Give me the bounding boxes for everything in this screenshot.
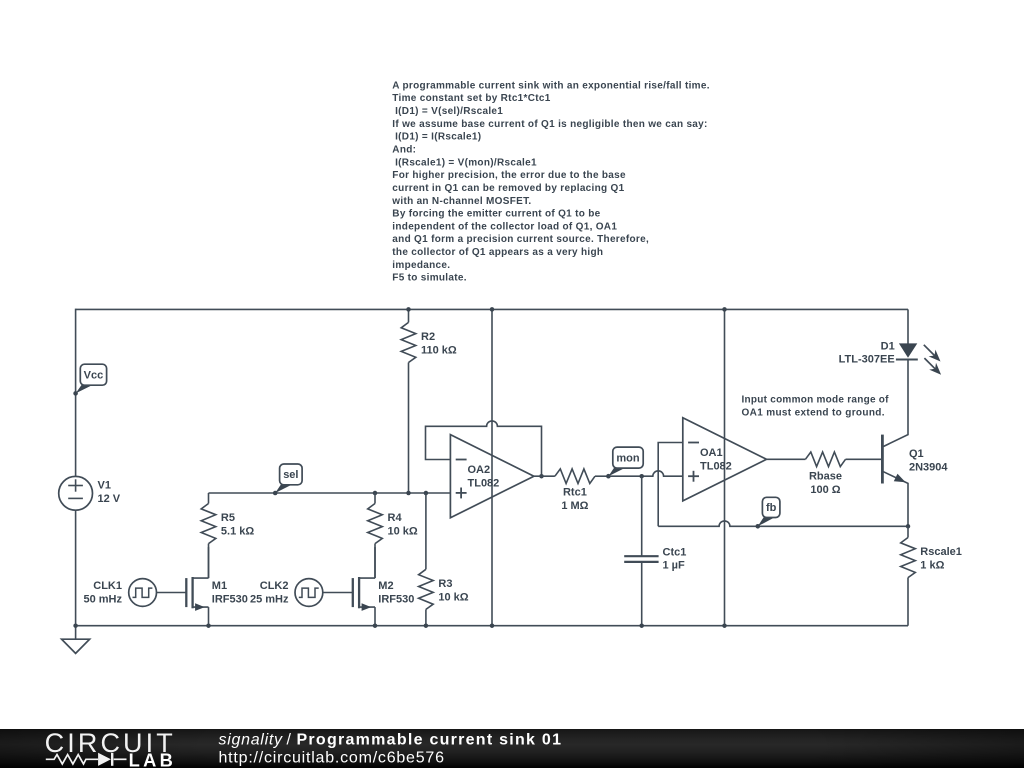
- svg-text:and Q1 form a precision curren: and Q1 form a precision current source. …: [392, 234, 649, 245]
- svg-text:2N3904: 2N3904: [909, 461, 948, 473]
- junction bottom rail / Ctc1: [639, 623, 644, 628]
- svg-text:And:: And:: [392, 145, 416, 156]
- svg-text:R2: R2: [421, 331, 435, 343]
- svg-text:/: /: [287, 732, 292, 749]
- junction top rail / supply col 1: [490, 307, 495, 312]
- svg-text:CLK2: CLK2: [260, 580, 289, 592]
- svg-text:D1: D1: [881, 340, 895, 352]
- logo resistor-diode glyph: [46, 753, 127, 766]
- svg-text:110 kΩ: 110 kΩ: [421, 344, 457, 356]
- svg-text:impedance.: impedance.: [392, 260, 450, 271]
- svg-text:http://circuitlab.com/c6be576: http://circuitlab.com/c6be576: [219, 750, 445, 767]
- wire sel node (to OA2 + input): [209, 492, 451, 494]
- svg-text:F5 to simulate.: F5 to simulate.: [392, 273, 467, 284]
- CircuitLab logo: [0, 725, 1024, 768]
- junction bottom rail / M2 source: [373, 623, 378, 628]
- svg-text:M2: M2: [378, 580, 393, 592]
- svg-text:A programmable current sink wi: A programmable current sink with an expo…: [392, 80, 710, 91]
- svg-text:M1: M1: [212, 580, 227, 592]
- clock source CLK2 25mHz: [250, 579, 323, 607]
- svg-text:LAB: LAB: [129, 749, 173, 768]
- svg-text:TL082: TL082: [468, 478, 500, 490]
- svg-text:I(D1) = V(sel)/Rscale1: I(D1) = V(sel)/Rscale1: [395, 106, 503, 117]
- wire left rail upper (Vcc to V1): [75, 309, 77, 477]
- wire left rail lower (V1 to ground rail): [75, 510, 77, 626]
- svg-text:1 µF: 1 µF: [663, 560, 686, 572]
- svg-text:current in Q1 can be removed b: current in Q1 can be removed by replacin…: [392, 183, 624, 194]
- net flag Vcc: [73, 364, 106, 396]
- ground: [62, 626, 90, 654]
- svg-text:R3: R3: [438, 578, 452, 590]
- resistor Rtc1 1M: [534, 469, 609, 512]
- svg-text:R4: R4: [388, 512, 403, 524]
- svg-text:Input common mode range of: Input common mode range of: [742, 394, 890, 405]
- wire top rail: [76, 308, 908, 310]
- resistor R5 5.1k: [201, 493, 254, 578]
- svg-text:10 kΩ: 10 kΩ: [438, 591, 468, 603]
- svg-text:If we assume base current of Q: If we assume base current of Q1 is negli…: [392, 119, 707, 130]
- junction top rail / supply col 2: [722, 307, 727, 312]
- svg-text:Ctc1: Ctc1: [663, 546, 687, 558]
- LED D1 LTL-307EE: [839, 309, 941, 374]
- resistor Rscale1 1k: [901, 526, 962, 625]
- svg-text:Vcc: Vcc: [84, 370, 104, 382]
- junction bottom rail / R3: [424, 623, 429, 628]
- svg-text:OA1 must extend to ground.: OA1 must extend to ground.: [742, 407, 885, 418]
- svg-text:independent of the collector l: independent of the collector load of Q1,…: [392, 221, 617, 232]
- svg-text:Rscale1: Rscale1: [920, 546, 962, 558]
- junction bottom rail / M1 source: [206, 623, 211, 628]
- footer bar: [0, 729, 1024, 768]
- svg-text:CLK1: CLK1: [93, 580, 122, 592]
- svg-text:25 mHz: 25 mHz: [250, 593, 289, 605]
- net flag fb: [756, 497, 780, 528]
- junction bottom rail / supply col 1: [490, 623, 495, 628]
- svg-text:TL082: TL082: [700, 461, 732, 473]
- junction bottom rail / ground: [73, 623, 78, 628]
- wire mon to OA1 + input, hops fb column: [608, 471, 682, 476]
- resistor R4 10k: [368, 493, 418, 578]
- svg-text:OA2: OA2: [468, 464, 491, 476]
- wire op-amp supply column at x=492: [491, 309, 493, 625]
- resistor R2 110k: [401, 309, 457, 493]
- wire OA1 - input: [658, 443, 683, 527]
- svg-text:signality: signality: [219, 732, 284, 749]
- svg-text:1 MΩ: 1 MΩ: [561, 500, 588, 512]
- svg-text:sel: sel: [283, 469, 298, 481]
- wire fb net (OA1 - to Q1 emitter), hops supply column: [658, 521, 908, 526]
- mosfet M2 IRF530: [353, 547, 415, 626]
- svg-text:R5: R5: [221, 512, 235, 524]
- svg-text:1 kΩ: 1 kΩ: [920, 560, 944, 572]
- svg-text:IRF530: IRF530: [212, 593, 248, 605]
- svg-text:12 V: 12 V: [98, 493, 121, 505]
- junction Ctc1 top: [639, 474, 644, 479]
- net flag mon: [606, 447, 643, 478]
- clock source CLK1 50mHz: [83, 579, 156, 607]
- junction top rail / R2: [406, 307, 411, 312]
- svg-text:V1: V1: [98, 480, 111, 492]
- svg-text:the collector of Q1 appears as: the collector of Q1 appears as a very hi…: [392, 247, 603, 258]
- svg-text:LTL-307EE: LTL-307EE: [839, 354, 895, 366]
- resistor Rbase 100: [767, 452, 882, 496]
- svg-text:50 mHz: 50 mHz: [83, 593, 122, 605]
- capacitor Ctc1 1uF: [624, 476, 686, 626]
- svg-text:Rtc1: Rtc1: [563, 487, 587, 499]
- svg-text:OA1: OA1: [700, 447, 723, 459]
- junction R3 top: [424, 491, 429, 496]
- mosfet M1 IRF530: [186, 547, 248, 626]
- svg-text:fb: fb: [766, 502, 777, 514]
- wire op-amp supply column at x=724.5: [724, 309, 726, 625]
- svg-text:100 Ω: 100 Ω: [810, 484, 840, 496]
- svg-text:By forcing the emitter current: By forcing the emitter current of Q1 to …: [392, 209, 600, 220]
- net flag sel: [273, 464, 302, 495]
- junction Q1 emitter / fb: [906, 524, 911, 529]
- note: circuit description: [391, 80, 710, 283]
- op-amp OA2 TL082: [450, 435, 534, 518]
- svg-text:I(D1) = I(Rscale1): I(D1) = I(Rscale1): [395, 132, 481, 143]
- svg-text:10 kΩ: 10 kΩ: [388, 526, 418, 538]
- svg-text:Time constant set by Rtc1*Ctc1: Time constant set by Rtc1*Ctc1: [392, 93, 550, 104]
- svg-text:with an N-channel MOSFET.: with an N-channel MOSFET.: [391, 196, 531, 207]
- svg-text:I(Rscale1) = V(mon)/Rscale1: I(Rscale1) = V(mon)/Rscale1: [395, 157, 537, 168]
- svg-text:Rbase: Rbase: [809, 471, 842, 483]
- svg-text:mon: mon: [616, 452, 640, 464]
- voltage source V1 12V: [59, 476, 121, 510]
- svg-text:Programmable current sink 01: Programmable current sink 01: [297, 732, 562, 749]
- wire OA2 feedback (output to - input), hops supply column: [426, 421, 542, 476]
- svg-text:IRF530: IRF530: [378, 593, 414, 605]
- svg-text:5.1 kΩ: 5.1 kΩ: [221, 526, 254, 538]
- wire bottom rail: [76, 625, 908, 627]
- note: input common mode: [742, 394, 890, 418]
- wire CLK2 to M2 gate: [323, 592, 353, 594]
- svg-text:For higher precision, the erro: For higher precision, the error due to t…: [392, 170, 626, 181]
- junction R4 top: [373, 491, 378, 496]
- junction bottom rail / supply col 2: [722, 623, 727, 628]
- resistor R3 10k: [419, 493, 469, 626]
- svg-text:Q1: Q1: [909, 448, 924, 460]
- op-amp OA1 TL082: [683, 418, 767, 501]
- transistor Q1 2N3904: [882, 359, 948, 526]
- junction OA2 output: [539, 474, 544, 479]
- wire CLK1 to M1 gate: [157, 592, 187, 594]
- junction R2 bottom: [406, 491, 411, 496]
